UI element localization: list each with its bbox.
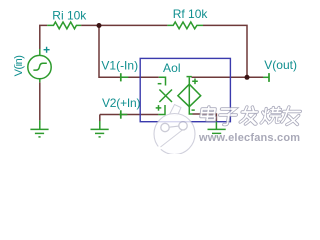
svg-text:V1(-In): V1(-In) — [101, 59, 138, 73]
svg-text:Aol: Aol — [163, 61, 181, 75]
svg-text:V(in): V(in) — [13, 56, 25, 77]
svg-text:V2(+In): V2(+In) — [102, 96, 140, 110]
svg-text:Ri 10k: Ri 10k — [52, 8, 87, 22]
svg-text:www.elecfans.com: www.elecfans.com — [198, 132, 300, 144]
svg-text:Rf 10k: Rf 10k — [173, 7, 209, 21]
svg-text:V(out): V(out) — [264, 58, 297, 72]
